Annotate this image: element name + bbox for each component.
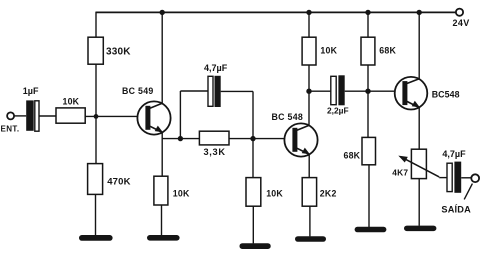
ground G2: [147, 235, 180, 241]
wire top supply rail: [96, 11, 456, 13]
svg-text:24V: 24V: [453, 18, 470, 28]
node base Q1 divider junction: [94, 114, 99, 119]
capacitor C1 1uF: [26, 100, 39, 131]
capacitor C2 4.7uF: [208, 76, 221, 107]
wire 3.3K to Q2 base: [229, 138, 285, 140]
wire SAIDA callout line: [464, 184, 472, 200]
svg-text:BC 549: BC 549: [122, 86, 154, 96]
wire C3 to Q3 base node: [345, 90, 368, 92]
resistor 10K base Q2: [246, 178, 261, 207]
svg-text:2K2: 2K2: [320, 189, 337, 199]
terminal ENT. input: [7, 112, 14, 119]
ground G6: [404, 226, 436, 232]
resistor 10K series input: [56, 108, 85, 123]
wire 330K bottom to base node: [95, 64, 97, 117]
ground G5: [355, 227, 387, 233]
svg-text:68K: 68K: [344, 151, 361, 161]
wire Q3 collector to rail: [418, 12, 420, 79]
svg-text:1µF: 1µF: [23, 86, 39, 96]
node collector-cap junction: [306, 89, 311, 94]
wire Q3 emitter to 4K7: [418, 107, 420, 149]
svg-text:3,3K: 3,3K: [204, 147, 226, 157]
resistor 68K upper: [361, 37, 375, 65]
node Q3 base divider junction: [365, 89, 370, 94]
wire Q1 emitter down: [161, 132, 163, 176]
capacitor C3 2.2uF: [331, 75, 345, 105]
node Q2 base junction: [250, 136, 255, 141]
wire 10K to Q2 collector: [308, 65, 310, 125]
node rail-Q3 collector: [417, 10, 422, 15]
svg-text:4K7: 4K7: [392, 167, 408, 177]
wire C4 to output terminal: [461, 177, 471, 179]
wire 2K2 to ground G4: [309, 206, 311, 236]
wire 68K lower to ground G5: [368, 165, 370, 227]
terminal 24V: [456, 9, 463, 16]
svg-text:SAÍDA: SAÍDA: [441, 204, 471, 215]
wire 470K to ground: [95, 194, 97, 235]
wire base node to 470K: [95, 116, 97, 163]
node emitter-cap junction: [178, 136, 183, 141]
ground G4: [295, 236, 326, 242]
wire riser to C2: [180, 90, 208, 92]
wire wiper to C4: [439, 177, 447, 179]
svg-text:10K: 10K: [63, 97, 80, 107]
wire R2 to Q1 base: [85, 115, 138, 117]
terminal SAIDA output: [471, 174, 479, 182]
wire cap branch left riser: [179, 91, 181, 139]
wire base node down to 10K: [252, 139, 254, 178]
svg-text:68K: 68K: [379, 46, 396, 56]
transistor Q2 BC548: [284, 123, 317, 156]
svg-text:BC 548: BC 548: [272, 112, 304, 122]
svg-text:2,2µF: 2,2µF: [327, 105, 349, 115]
node rail-Q1 collector: [160, 10, 165, 15]
transistor Q1 BC549: [137, 101, 170, 134]
wire base node to Q3 base: [368, 90, 395, 92]
svg-text:10K: 10K: [173, 189, 190, 199]
svg-text:10K: 10K: [320, 46, 337, 56]
wire 4K7 to ground G6: [418, 179, 420, 226]
wire Q2 emitter to 2K2: [308, 154, 310, 177]
wire C1 to R2: [39, 115, 56, 117]
svg-text:ENT.: ENT.: [1, 125, 20, 134]
svg-text:330K: 330K: [106, 47, 131, 58]
wire cap branch right riser: [252, 91, 254, 138]
wire collector node to C3: [309, 90, 331, 92]
ground G3: [240, 243, 271, 249]
ground G1: [79, 235, 113, 241]
wire 10K to ground G3: [252, 206, 254, 243]
wire input terminal to C1: [14, 115, 26, 117]
wire emitter node to 3.3K: [162, 138, 199, 140]
resistor 3.3K: [199, 131, 229, 145]
node rail-68K: [365, 10, 370, 15]
capacitor C4 4.7uF output: [447, 162, 461, 193]
transistor Q3 BC548: [395, 77, 428, 110]
wire Q1 collector to rail: [161, 12, 163, 103]
svg-text:10K: 10K: [266, 189, 283, 199]
wire rail to 10K collector Q2: [308, 12, 310, 37]
resistor 68K lower: [362, 137, 376, 164]
wire rail to 68K top: [367, 12, 369, 37]
resistor 2K2: [302, 178, 316, 207]
resistor 330K: [88, 37, 103, 64]
wire 68K upper to base node: [367, 65, 369, 137]
resistor 10K collector Q2: [302, 37, 316, 65]
wire 10K to ground: [161, 205, 163, 235]
svg-text:4,7µF: 4,7µF: [442, 149, 466, 159]
node rail-10K: [306, 10, 311, 15]
wire 330K top (rail to R1): [95, 12, 97, 38]
potentiometer 4K7: [398, 149, 439, 178]
resistor 10K emitter Q1: [154, 176, 168, 205]
svg-text:BC548: BC548: [432, 90, 460, 100]
wire C2 to right riser: [221, 90, 253, 92]
svg-text:470K: 470K: [107, 177, 131, 188]
svg-text:4,7µF: 4,7µF: [204, 63, 228, 73]
resistor 470K: [88, 164, 103, 195]
